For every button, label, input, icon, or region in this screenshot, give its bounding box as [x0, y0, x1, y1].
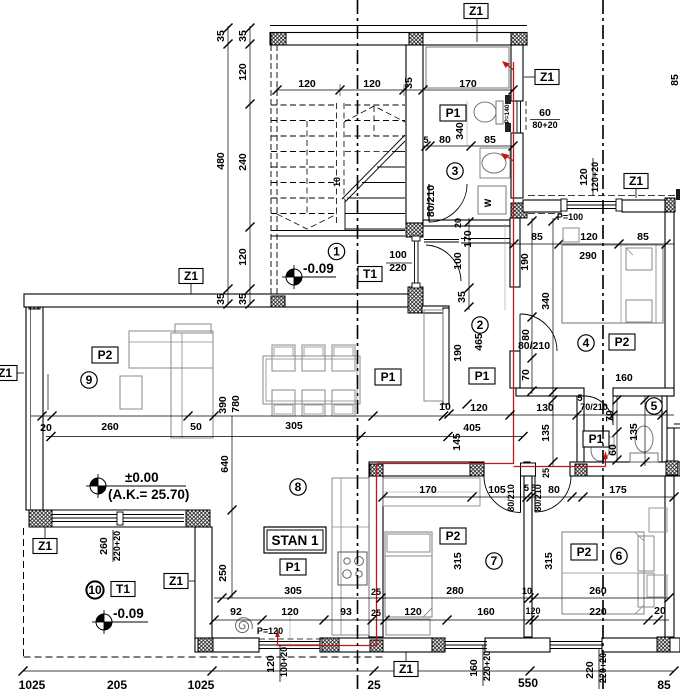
svg-text:P=140: P=140	[504, 104, 511, 123]
hall north thin wall	[461, 238, 510, 240]
svg-text:170: 170	[459, 78, 477, 90]
svg-text:130: 130	[536, 402, 554, 414]
label T1 terrace	[111, 582, 135, 597]
wardrobe room7	[383, 478, 480, 506]
pillar hatch bedroom4 NE	[665, 198, 675, 212]
label P1 bathroom3	[440, 105, 466, 121]
terrace dashed outline west	[23, 528, 25, 657]
extension line x505 hall	[504, 224, 506, 310]
svg-text:80: 80	[548, 484, 560, 496]
dim line bathroom3 mid	[423, 145, 513, 147]
sofa L-shape	[175, 324, 211, 333]
coffee table	[120, 376, 142, 409]
bathroom3 shower tray	[426, 47, 509, 88]
svg-text:340: 340	[540, 292, 552, 310]
svg-text:25: 25	[367, 678, 381, 689]
red arrow bathroom5	[605, 456, 607, 467]
svg-text:5: 5	[577, 393, 582, 403]
svg-text:120+20: 120+20	[590, 162, 600, 192]
dim chain bedroom4 x532	[531, 218, 533, 394]
Z1 leader bedroom4	[635, 188, 637, 198]
room7 west wall	[369, 476, 383, 637]
dim line rooms y620	[214, 619, 669, 621]
svg-text:-0.09: -0.09	[303, 261, 334, 276]
svg-text:120: 120	[363, 78, 381, 90]
Z1 leader top	[476, 18, 478, 42]
svg-text:10: 10	[88, 583, 102, 597]
label P1 stan	[280, 559, 306, 575]
label T1 stair	[358, 267, 382, 282]
svg-text:6: 6	[616, 549, 623, 563]
svg-text:120: 120	[525, 606, 540, 616]
svg-text:260: 260	[101, 421, 119, 433]
bed room4	[562, 245, 663, 323]
svg-text:260: 260	[589, 585, 607, 597]
svg-text:9: 9	[86, 373, 93, 387]
svg-text:100: 100	[389, 249, 407, 261]
svg-text:1025: 1025	[19, 678, 46, 689]
label P1 living	[375, 369, 401, 385]
dashed line above window P=120	[259, 638, 321, 640]
kitchen stove	[338, 552, 367, 585]
svg-text:85: 85	[637, 231, 649, 243]
svg-text:Z1: Z1	[184, 269, 198, 283]
pillar hatch bathroom3 SW	[406, 223, 423, 237]
bottom overall dim line	[23, 670, 674, 672]
rooms 6-7 north wall east part	[570, 462, 680, 476]
floor drain spiral	[236, 618, 253, 633]
svg-text:120: 120	[470, 402, 488, 414]
bedroom4 north wall east part	[622, 200, 665, 212]
divider 60/80+20	[530, 119, 560, 121]
svg-text:35: 35	[237, 293, 249, 305]
south exterior wall segment 2	[320, 638, 445, 652]
south exterior wall segment 1	[195, 638, 259, 652]
living room south window wall pillar east	[186, 510, 210, 527]
toilet bathroom3	[496, 101, 503, 124]
pillar hatch corridor NE corner	[511, 203, 527, 218]
svg-text:P2: P2	[577, 545, 592, 559]
svg-text:20: 20	[40, 422, 52, 434]
divider 100/220	[386, 262, 412, 264]
pillar hatch south c	[370, 640, 383, 652]
svg-text:315: 315	[543, 552, 555, 570]
dim chain bathroom5 x645	[644, 396, 646, 466]
window living south 1	[52, 514, 117, 516]
dim line bedroom4 top	[510, 243, 674, 245]
svg-text:190: 190	[519, 253, 531, 271]
room number 4	[578, 335, 594, 351]
dining chairs	[272, 345, 295, 371]
svg-text:3: 3	[452, 164, 459, 178]
svg-text:390: 390	[217, 396, 229, 414]
svg-text:550: 550	[518, 676, 538, 689]
pillar hatch wallJ b	[470, 463, 484, 476]
living south wall outline	[29, 509, 210, 511]
svg-text:160: 160	[477, 606, 495, 618]
svg-text:160: 160	[615, 372, 633, 384]
pillar hatch south d	[432, 638, 445, 652]
east exterior wall lower	[665, 475, 674, 637]
label Z1 bedroom4	[624, 174, 648, 189]
section cut line A overlay	[357, 0, 359, 689]
red pipe along south wall	[278, 645, 377, 647]
section cut line B overlay	[602, 0, 604, 689]
svg-text:160: 160	[468, 659, 480, 677]
divider bottom 220/220+20	[598, 648, 600, 689]
svg-text:Z1: Z1	[38, 539, 52, 553]
bathroom3 south wall	[423, 220, 510, 226]
red arrow washbasin bathroom3	[505, 155, 514, 161]
room number 6	[611, 548, 627, 564]
svg-text:P2: P2	[98, 348, 113, 362]
label Z1 west	[0, 366, 17, 381]
door room7 (80/210)	[484, 476, 521, 513]
pillar hatch wallJ e	[666, 461, 678, 475]
Z1 leader lower west	[189, 580, 195, 582]
top exterior wall	[270, 25, 527, 27]
svg-text:P1: P1	[446, 106, 461, 120]
svg-text:120: 120	[265, 655, 277, 673]
dim chain bathroom5 x617	[616, 396, 618, 462]
Z1 leader east	[524, 76, 536, 78]
Z1 leader stair	[190, 284, 192, 294]
svg-text:Z1: Z1	[469, 4, 483, 18]
svg-text:120: 120	[237, 63, 249, 81]
svg-text:10: 10	[522, 586, 532, 596]
divider bottom 120/100+20	[279, 645, 281, 682]
svg-text:7: 7	[491, 554, 498, 568]
window P=120 living bottom	[259, 641, 320, 643]
label P2 living	[92, 347, 118, 363]
stairs dashed treads left flight	[271, 104, 336, 106]
svg-text:35: 35	[215, 293, 227, 305]
svg-text:315: 315	[452, 552, 464, 570]
svg-text:80/210: 80/210	[425, 185, 437, 217]
svg-text:85: 85	[669, 74, 680, 86]
pillar hatch top-right	[511, 33, 527, 46]
svg-text:P1: P1	[589, 432, 604, 446]
svg-text:135: 135	[540, 424, 552, 442]
svg-text:290: 290	[579, 250, 597, 262]
dim chain bathroom5 x553	[552, 396, 554, 466]
svg-text:480: 480	[215, 152, 227, 170]
svg-text:120: 120	[578, 168, 590, 186]
Z1 leader west	[16, 372, 24, 374]
pillar hatch wallJ d	[575, 464, 587, 476]
svg-text:85: 85	[484, 134, 496, 146]
svg-text:100: 100	[452, 252, 464, 270]
svg-text:T1: T1	[363, 267, 377, 281]
svg-text:Z1: Z1	[0, 366, 12, 380]
room number 7	[486, 553, 502, 569]
room number 2	[472, 317, 488, 333]
svg-text:170: 170	[462, 230, 474, 248]
svg-text:305: 305	[284, 585, 302, 597]
tall cabinet along hall wall	[424, 310, 443, 401]
pillar hatch LRtop a	[271, 296, 285, 307]
window living south 2	[123, 514, 184, 516]
svg-text:240: 240	[237, 153, 249, 171]
svg-text:145: 145	[451, 433, 463, 451]
svg-text:STAN 1: STAN 1	[271, 533, 318, 548]
nightstand bedroom4	[563, 228, 579, 242]
stairs walking line right + up chevron	[373, 106, 375, 136]
svg-text:±0.00: ±0.00	[125, 470, 159, 485]
room number 9	[81, 372, 97, 388]
svg-text:5: 5	[524, 483, 529, 493]
door frame block rooms 6-7	[521, 463, 536, 476]
stairs section break diagonal	[342, 135, 405, 199]
washbasin bathroom5	[591, 439, 609, 461]
door bedroom4 (80/210)	[520, 314, 557, 351]
west lower wall	[195, 527, 212, 638]
label P2 room6	[571, 544, 597, 560]
svg-text:405: 405	[463, 422, 481, 434]
pillar hatch living NW	[29, 296, 40, 309]
svg-text:25: 25	[371, 608, 381, 618]
bathroom5 west wall	[577, 396, 584, 462]
svg-text:P2: P2	[446, 529, 461, 543]
svg-text:Z1: Z1	[629, 174, 643, 188]
door bathroom3 (80/210)	[428, 184, 430, 222]
neighbouring wall fragment right edge	[676, 189, 680, 200]
dim line doors y497	[383, 496, 674, 498]
svg-text:80/210: 80/210	[533, 484, 543, 512]
washbasin bathroom3	[480, 148, 510, 178]
svg-text:120: 120	[298, 78, 316, 90]
nightstand room6 right	[647, 575, 667, 597]
divider bottom 160/220+20	[482, 645, 484, 686]
section cut line B	[602, 0, 604, 689]
pillar hatch south b	[322, 638, 339, 652]
svg-text:190: 190	[452, 344, 464, 362]
bathroom3 west wall	[406, 45, 423, 223]
label P1 hall	[469, 368, 495, 384]
svg-text:120: 120	[404, 606, 422, 618]
red arrow top bathroom3	[505, 63, 514, 70]
svg-text:P1: P1	[381, 370, 396, 384]
svg-text:220+20: 220+20	[482, 651, 492, 681]
rooms 6-7 north wall west part	[369, 462, 484, 476]
divider 260/220+20 rot	[112, 530, 114, 562]
svg-text:35: 35	[215, 30, 227, 42]
svg-text:120: 120	[580, 231, 598, 243]
svg-text:8: 8	[295, 480, 302, 494]
svg-text:25: 25	[371, 587, 381, 597]
svg-text:35: 35	[237, 30, 249, 42]
svg-text:100+20: 100+20	[279, 647, 289, 677]
window bathroom3 east	[513, 101, 515, 133]
svg-text:1: 1	[333, 245, 340, 259]
svg-text:105: 105	[488, 484, 506, 496]
label P1 bathroom5	[583, 431, 609, 447]
svg-text:10: 10	[439, 401, 451, 413]
wardrobe room6 right	[649, 508, 667, 532]
svg-text:250: 250	[217, 564, 229, 582]
pillar hatch top-mid	[409, 33, 423, 46]
room number 8	[290, 479, 306, 495]
svg-text:50: 50	[190, 421, 202, 433]
Z1 leader terrace	[44, 527, 46, 538]
label Z1 bottom	[394, 662, 418, 677]
svg-text:175: 175	[609, 484, 627, 496]
svg-text:120: 120	[281, 606, 299, 618]
label Z1 lower west	[164, 574, 188, 589]
label STAN 1	[264, 527, 326, 553]
label P2 bedroom4	[609, 334, 635, 350]
svg-text:85: 85	[657, 678, 671, 689]
svg-text:80+20: 80+20	[532, 120, 557, 130]
living room west wall	[26, 296, 43, 510]
window room6 bottom	[550, 641, 602, 643]
door bathroom5 (70/210)	[584, 396, 613, 425]
svg-text:P=120: P=120	[257, 626, 283, 636]
window frame mid post	[117, 512, 123, 525]
dim line rooms y598	[214, 597, 669, 599]
svg-text:205: 205	[107, 678, 127, 689]
hall dim chain x469	[468, 218, 470, 310]
extension line bath3 x467	[466, 101, 468, 146]
toilet bathroom5	[635, 426, 653, 452]
toilet cistern blocks	[505, 95, 511, 104]
pillar hatch wallJ a	[370, 464, 383, 476]
stairs solid lower treads	[392, 151, 405, 153]
svg-text:25: 25	[541, 468, 551, 478]
stairs walking line left + down chevron	[306, 121, 308, 214]
svg-text:220: 220	[589, 606, 607, 618]
bathroom3 east wall upper	[511, 45, 523, 101]
svg-text:85: 85	[531, 231, 543, 243]
svg-text:20: 20	[654, 605, 666, 617]
svg-text:80/210: 80/210	[518, 340, 550, 352]
south exterior wall segment 3	[485, 638, 550, 652]
south exterior wall segment 4	[602, 638, 680, 652]
stairwell west wall (dashed above)	[270, 45, 272, 294]
corridor west wall upper	[510, 218, 520, 287]
svg-text:220: 220	[389, 262, 407, 274]
label Z1 terrace	[33, 539, 57, 554]
svg-text:Z1: Z1	[540, 70, 554, 84]
svg-text:780: 780	[230, 395, 242, 413]
stairs dashed treads right flight upper	[345, 151, 392, 153]
rooms 6-7 north wall centre part	[524, 462, 530, 476]
living room north wall	[24, 294, 422, 307]
pillar hatch LRtop b (big)	[408, 287, 423, 313]
svg-text:35: 35	[456, 291, 468, 303]
svg-text:80/210: 80/210	[506, 484, 516, 512]
pillar hatch top-left	[271, 33, 286, 46]
window room7 bottom	[445, 641, 487, 643]
terrace dashed outline south	[24, 656, 386, 658]
svg-text:P2: P2	[615, 335, 630, 349]
room number 10	[86, 581, 103, 598]
svg-text:120: 120	[237, 248, 249, 266]
svg-text:20: 20	[453, 218, 463, 228]
dining table	[263, 356, 360, 404]
svg-text:-0.09: -0.09	[113, 606, 144, 621]
hall west wall	[443, 308, 449, 404]
living room south window wall pillar west	[29, 510, 52, 527]
svg-text:135: 135	[628, 423, 640, 441]
svg-text:220+20: 220+20	[112, 531, 122, 561]
dim chain bedroom4 x553	[552, 218, 554, 395]
window bedroom4 north P=100	[561, 201, 622, 203]
svg-text:92: 92	[230, 606, 242, 618]
dim line living y416	[31, 415, 448, 417]
svg-text:280: 280	[446, 585, 464, 597]
svg-text:2: 2	[477, 318, 484, 332]
bedroom4 north wall west part	[523, 200, 561, 212]
kitchen counter	[332, 478, 369, 635]
label Z1 east	[535, 70, 559, 85]
label Z1 top	[464, 4, 488, 19]
svg-text:70: 70	[604, 410, 616, 422]
east wall stub	[674, 423, 680, 425]
red arrow to drain P=120	[277, 634, 279, 646]
bathroom3 east wall lower	[511, 133, 523, 198]
left dim chain x228	[227, 26, 229, 305]
svg-text:Z1: Z1	[169, 574, 183, 588]
svg-text:5: 5	[651, 399, 658, 413]
svg-text:4: 4	[583, 336, 590, 350]
bed room7	[385, 532, 432, 617]
label Z1 stair	[179, 269, 203, 284]
wall connecting to hall wall	[422, 306, 449, 313]
window extension line	[289, 614, 291, 644]
bedroom4 south wall west part	[516, 388, 584, 396]
svg-text:93: 93	[340, 606, 352, 618]
corridor west wall lower	[510, 351, 520, 388]
svg-text:170: 170	[419, 484, 437, 496]
elevation mark -0.09 terrace	[96, 614, 112, 630]
divider 120/120+20	[592, 158, 594, 196]
east exterior wall	[665, 212, 674, 396]
svg-text:P=100: P=100	[557, 212, 583, 222]
bed room6	[562, 532, 644, 614]
room number 3	[447, 163, 463, 179]
dim line living y437	[46, 436, 523, 438]
stairs centre rail dashed double	[336, 103, 338, 225]
svg-text:35: 35	[403, 77, 415, 89]
svg-text:640: 640	[219, 455, 231, 473]
red pipe along rooms67 north wall	[377, 463, 514, 465]
svg-text:260: 260	[98, 537, 110, 555]
svg-text:60: 60	[539, 107, 551, 119]
pillar hatch south a	[198, 638, 213, 652]
bathroom5 east wall	[662, 396, 667, 462]
red pipe room7 west wall	[376, 464, 378, 648]
svg-text:P1: P1	[286, 560, 301, 574]
red riser pipe east	[513, 62, 515, 464]
radiator living west	[47, 374, 49, 410]
projection dashed line above bedroom4 window	[528, 195, 680, 197]
elevation mark -0.09 stair	[286, 269, 302, 285]
red pipe to bathroom5	[514, 466, 606, 468]
svg-text:Z1: Z1	[399, 662, 413, 676]
section cut line A	[357, 0, 359, 689]
svg-text:T1: T1	[116, 582, 130, 596]
left dim chain x250	[249, 26, 251, 305]
svg-text:465: 465	[473, 333, 485, 351]
svg-text:P1: P1	[475, 369, 490, 383]
svg-text:220: 220	[584, 661, 596, 679]
room number 1	[328, 243, 344, 259]
svg-text:1025: 1025	[188, 678, 215, 689]
svg-text:305: 305	[285, 420, 303, 432]
door room6 (80/210)	[535, 476, 571, 512]
svg-text:W: W	[483, 198, 493, 207]
